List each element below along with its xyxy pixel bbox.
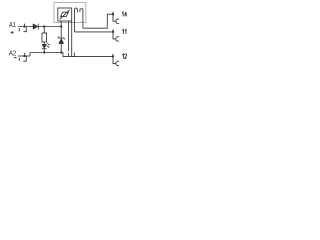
label 12 [122,54,123,59]
terminal 14: socket hook [116,19,119,23]
terminal 12: junction dot [112,55,114,57]
wire: suppressor branch down [60,27,62,39]
terminal A2: wire [18,55,30,57]
coil pin to A1 node [60,21,62,27]
resistor R1 [42,33,47,42]
terminal A1: clamp [24,27,26,32]
wire: suppressor to rail [60,44,62,53]
terminal A1: junction dot [23,25,25,27]
wire: rail jog to coil socket [63,53,74,57]
wire: NC contact to terminal 12 [74,55,113,57]
diode D1 (series, anode left) [33,24,38,30]
terminal 11: socket hook [116,37,119,41]
terminal A2: pin tick [24,53,26,56]
terminal 11: pin tick [112,29,114,32]
wire: resistor to LED [43,42,45,44]
coil socket prong [68,53,70,56]
terminal A2: junction dot [23,55,25,57]
terminal A2: clamp [24,57,26,62]
terminal 14: junction dot [112,13,114,15]
minus sign under A2 [14,57,17,59]
wire: A2 rail [30,52,63,54]
relay common pin loop [75,8,78,32]
terminal A2: socket hook [18,58,21,61]
suppressor diode D3 (Z-bar cathode up) [58,36,64,43]
relay coil box K1 [58,8,72,21]
relay module outline (gray) [54,3,86,23]
wire: common contact to terminal 11 [75,31,114,33]
terminal 11: drop [113,32,116,39]
coil icon diagonal [60,10,70,19]
terminal 12: pin tick [112,54,114,57]
plus sign under A1 [11,31,14,34]
terminal A1: pin tick [24,24,26,27]
wire: NO contact to terminal 14 [83,14,113,28]
terminal A1: socket hook [18,28,21,31]
terminal 12: socket hook [116,61,119,65]
node: junction dot LED branch [43,25,45,27]
svg-text:A1: A1 [9,22,16,29]
LED light arrows [47,43,50,48]
terminal 14: drop [113,14,116,21]
LED D2 (cathode down) [42,44,47,48]
terminal 14: pin tick [112,12,114,15]
svg-text:A2: A2 [9,51,16,58]
label 11 [122,29,123,34]
wire: A2 riser [29,53,31,57]
terminal A1: wire [18,26,61,28]
node: junction dot LED/rail [43,51,45,53]
terminal 12: drop [113,56,116,63]
node: junction dot suppressor/rail [60,51,62,53]
coil pin to A2 socket (left leg) [68,21,70,52]
node: junction dot suppressor top [60,25,62,27]
relay NC pin (right leg) [72,21,75,56]
terminal 11: junction dot [112,31,114,33]
relay NO pin loop [80,9,83,28]
coil icon parallelogram [61,12,69,16]
label 14 [122,12,123,17]
wire: LED to rail [43,49,45,53]
wire: LED branch down [43,27,45,34]
